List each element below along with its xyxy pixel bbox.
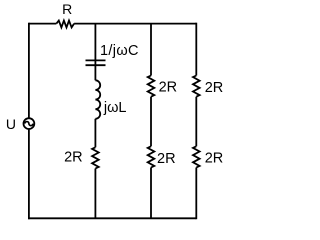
wire middle branch between L and resistor	[94, 119, 96, 148]
svg-text:2R: 2R	[157, 151, 176, 167]
resistor 2R branch3 top	[148, 76, 155, 97]
source U1	[24, 118, 35, 129]
wire middle branch upper	[94, 24, 96, 81]
sine mark in source	[25, 122, 33, 126]
inductor L1	[95, 80, 100, 119]
svg-text:2R: 2R	[159, 80, 178, 96]
wire middle branch lower	[94, 169, 96, 219]
wire branch3 lower	[150, 168, 152, 219]
resistor 2R branch3 bottom	[148, 146, 155, 167]
svg-text:U: U	[6, 116, 16, 132]
capacitor C1 plates	[86, 60, 106, 65]
resistor 2R right top	[193, 76, 200, 97]
wire top left horizontal	[29, 23, 57, 25]
resistor 2R right bottom	[193, 146, 200, 167]
svg-text:R: R	[62, 1, 72, 17]
wire top right horizontal	[74, 23, 196, 25]
wire bottom horizontal	[28, 217, 196, 219]
resistor 2R middle bottom	[92, 147, 99, 168]
wire branch3 upper	[150, 24, 152, 76]
svg-text:2R: 2R	[64, 150, 83, 166]
svg-text:2R: 2R	[205, 80, 224, 96]
wire right rail lower	[195, 168, 197, 220]
wire branch3 middle	[150, 97, 152, 147]
wire right rail upper	[195, 23, 197, 76]
svg-text:1/jωC: 1/jωC	[100, 43, 139, 59]
svg-text:2R: 2R	[205, 151, 224, 167]
wire left rail upper	[28, 23, 30, 119]
resistor R	[56, 21, 74, 28]
svg-text:jωL: jωL	[103, 100, 127, 116]
wire left rail lower	[28, 129, 30, 219]
wire right rail middle	[195, 97, 197, 147]
